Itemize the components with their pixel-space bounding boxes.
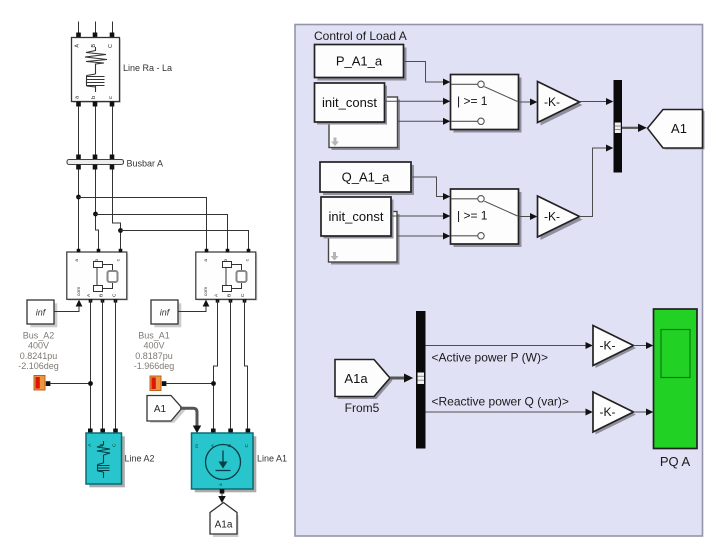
branch wire B to right breaker — [96, 215, 228, 253]
wire Line A1 bottom to A1a tag — [220, 489, 225, 494]
wire demux to gain3 — [426, 345, 586, 347]
thick wire A1a to demux — [390, 377, 404, 380]
gain4 — [593, 392, 636, 435]
mux — [614, 80, 623, 173]
svg-text:C: C — [240, 293, 246, 297]
port squares above Line A1 — [211, 429, 216, 434]
svg-text:-K-: -K- — [600, 339, 616, 353]
breaker interior switch icon — [94, 262, 118, 292]
svg-text:From5: From5 — [345, 401, 380, 415]
block Q_A1_a — [320, 162, 414, 195]
wire phase C top — [112, 22, 114, 34]
arrow into breaker com left — [76, 300, 83, 307]
junction node wire A — [76, 195, 81, 200]
svg-text:Line A2: Line A2 — [125, 454, 155, 464]
wire inf left to breaker com — [54, 305, 79, 312]
wire back block 1 to switch1 — [398, 120, 444, 122]
svg-text:a: a — [204, 259, 209, 262]
wire switch2 to gain2 — [519, 216, 531, 218]
from tag A1 — [147, 396, 185, 423]
wires Line Ra-La bottom ports — [76, 102, 114, 160]
wire phase B top — [95, 22, 97, 34]
svg-text:a: a — [219, 483, 224, 486]
wire phase A top — [78, 22, 80, 34]
gain1 — [538, 82, 583, 126]
block P_A1_a — [315, 45, 407, 81]
junction node wire C — [118, 228, 123, 233]
branch wire A to right breaker — [79, 198, 207, 253]
svg-text:B: B — [99, 294, 105, 297]
busbar bottom ports — [76, 165, 248, 253]
panel Control of Load A — [295, 25, 703, 537]
wire switch1 to gain1 — [519, 101, 531, 103]
svg-text:C: C — [108, 44, 114, 48]
thick wire A1 tag to Line A1 — [180, 408, 197, 427]
wire P_A1_a to switch1 — [404, 62, 444, 83]
branch wire C to right breaker — [121, 231, 249, 253]
svg-text:0.8187pu: 0.8187pu — [135, 351, 173, 361]
wire B down with jog — [96, 170, 99, 253]
svg-text:400V: 400V — [28, 341, 49, 351]
port square A — [76, 33, 81, 38]
svg-text:| >= 1: | >= 1 — [457, 94, 488, 108]
wire init_const2 to switch2 — [391, 215, 443, 217]
svg-text:Bus_A2: Bus_A2 — [23, 331, 55, 341]
svg-text:inf: inf — [36, 308, 47, 318]
wire A to busbar — [78, 106, 80, 156]
svg-text:0.8241pu: 0.8241pu — [20, 351, 58, 361]
goto tag A1 — [648, 110, 705, 150]
svg-text:<Active power P (W)>: <Active power P (W)> — [432, 351, 548, 365]
svg-text:A1a: A1a — [215, 520, 233, 531]
svg-text:m: m — [195, 444, 200, 448]
arrow into breaker com right — [203, 300, 210, 307]
wire gain1 to mux — [580, 101, 607, 103]
wire demux to gain4 — [426, 411, 586, 413]
wire C down with jog — [113, 170, 121, 253]
init_const front block 1 — [315, 83, 388, 125]
RL icon inside Line A2 — [97, 441, 110, 478]
gain2 — [538, 196, 583, 240]
svg-text:A1a: A1a — [344, 371, 368, 386]
wire gain4 to scope — [634, 411, 647, 413]
wire terminator right to node — [166, 383, 213, 385]
svg-text:400V: 400V — [143, 341, 164, 351]
wire gain2 to mux — [580, 148, 607, 217]
junction node A2 — [88, 381, 93, 386]
svg-text:-K-: -K- — [544, 210, 560, 224]
svg-text:init_const: init_const — [322, 95, 377, 110]
switch1 — [451, 75, 522, 133]
port squares above Line A2 — [88, 429, 93, 434]
demux — [416, 311, 426, 449]
init_const back block 2 — [329, 212, 400, 265]
svg-text:Busbar A: Busbar A — [127, 159, 164, 169]
junction node wire B — [93, 212, 98, 217]
svg-text:b: b — [91, 96, 97, 99]
scope PQ A — [654, 309, 698, 449]
inf block right — [151, 300, 181, 327]
Line A2 block — [86, 433, 125, 487]
wire gain3 to scope — [634, 345, 647, 347]
arrow into Line A1 signal port — [193, 426, 201, 434]
port square C — [110, 33, 115, 38]
wire A down to breaker left — [78, 170, 80, 253]
wire init_const1 to switch1 — [385, 100, 444, 102]
svg-text:-1.966deg: -1.966deg — [134, 361, 175, 371]
svg-text:C: C — [112, 443, 118, 447]
arrow into A1a tag — [218, 496, 226, 503]
wire C to busbar — [112, 106, 114, 156]
small gray arrow icon — [331, 138, 339, 147]
terminator left (orange) — [34, 376, 45, 391]
wire mux to goto A1 — [622, 127, 638, 129]
svg-text:C: C — [244, 443, 250, 447]
svg-text:A1: A1 — [154, 404, 167, 415]
svg-text:B: B — [227, 294, 233, 297]
svg-text:Line A1: Line A1 — [257, 454, 287, 464]
svg-text:P_A1_a: P_A1_a — [336, 54, 383, 69]
svg-text:inf: inf — [160, 308, 171, 318]
svg-text:Control of Load A: Control of Load A — [314, 29, 407, 43]
dynamic load icon circle arrow — [206, 445, 241, 480]
wire back block 2 to switch2 — [397, 235, 443, 237]
svg-text:c: c — [108, 96, 114, 99]
svg-text:A: A — [75, 44, 81, 48]
breaker block right — [196, 249, 257, 303]
svg-text:-2.106deg: -2.106deg — [18, 361, 59, 371]
svg-text:com: com — [204, 287, 209, 296]
svg-text:<Reactive power Q (var)>: <Reactive power Q (var)> — [432, 395, 569, 409]
svg-text:Q_A1_a: Q_A1_a — [342, 170, 390, 185]
port square B — [93, 33, 98, 38]
svg-text:init_const: init_const — [329, 209, 384, 224]
wire Q_A1_a to switch2 — [411, 177, 443, 197]
junction node A1 — [211, 381, 216, 386]
block Line Ra - La — [72, 38, 122, 104]
goto tag A1a — [210, 503, 239, 538]
Line A1 block — [192, 433, 257, 492]
label Bus_A2 — [18, 331, 59, 372]
busbar A — [67, 160, 124, 165]
svg-text:-K-: -K- — [544, 95, 560, 109]
wire terminator left to node — [50, 383, 90, 385]
svg-text:b: b — [223, 259, 229, 262]
svg-text:C: C — [112, 293, 118, 297]
RL icon inside Line Ra - La — [85, 47, 107, 92]
switch2 — [451, 189, 522, 247]
svg-text:A1: A1 — [671, 121, 687, 136]
svg-text:PQ A: PQ A — [660, 454, 691, 469]
svg-text:com: com — [77, 287, 82, 296]
svg-text:-K-: -K- — [600, 405, 616, 419]
breaker left outputs to Line A2 — [91, 299, 116, 429]
label Bus_A1 — [134, 331, 175, 372]
svg-text:| >= 1: | >= 1 — [457, 209, 488, 223]
init_const front block 2 — [321, 197, 394, 239]
from tag A1a — [335, 360, 393, 400]
inf block left — [27, 300, 57, 327]
svg-text:b: b — [94, 259, 100, 262]
svg-text:B: B — [91, 44, 97, 48]
svg-text:Bus_A1: Bus_A1 — [138, 331, 170, 341]
wire inf right to breaker com — [178, 305, 206, 312]
wire B to busbar — [95, 106, 97, 156]
svg-text:a: a — [75, 259, 80, 262]
terminator right (orange) — [150, 376, 161, 391]
gain3 — [593, 326, 636, 369]
svg-text:Line Ra - La: Line Ra - La — [123, 63, 172, 73]
breaker right outputs to Line A1 (with jogs) — [214, 299, 248, 429]
breaker block left — [67, 249, 129, 303]
init_const back block 1 — [329, 97, 400, 150]
